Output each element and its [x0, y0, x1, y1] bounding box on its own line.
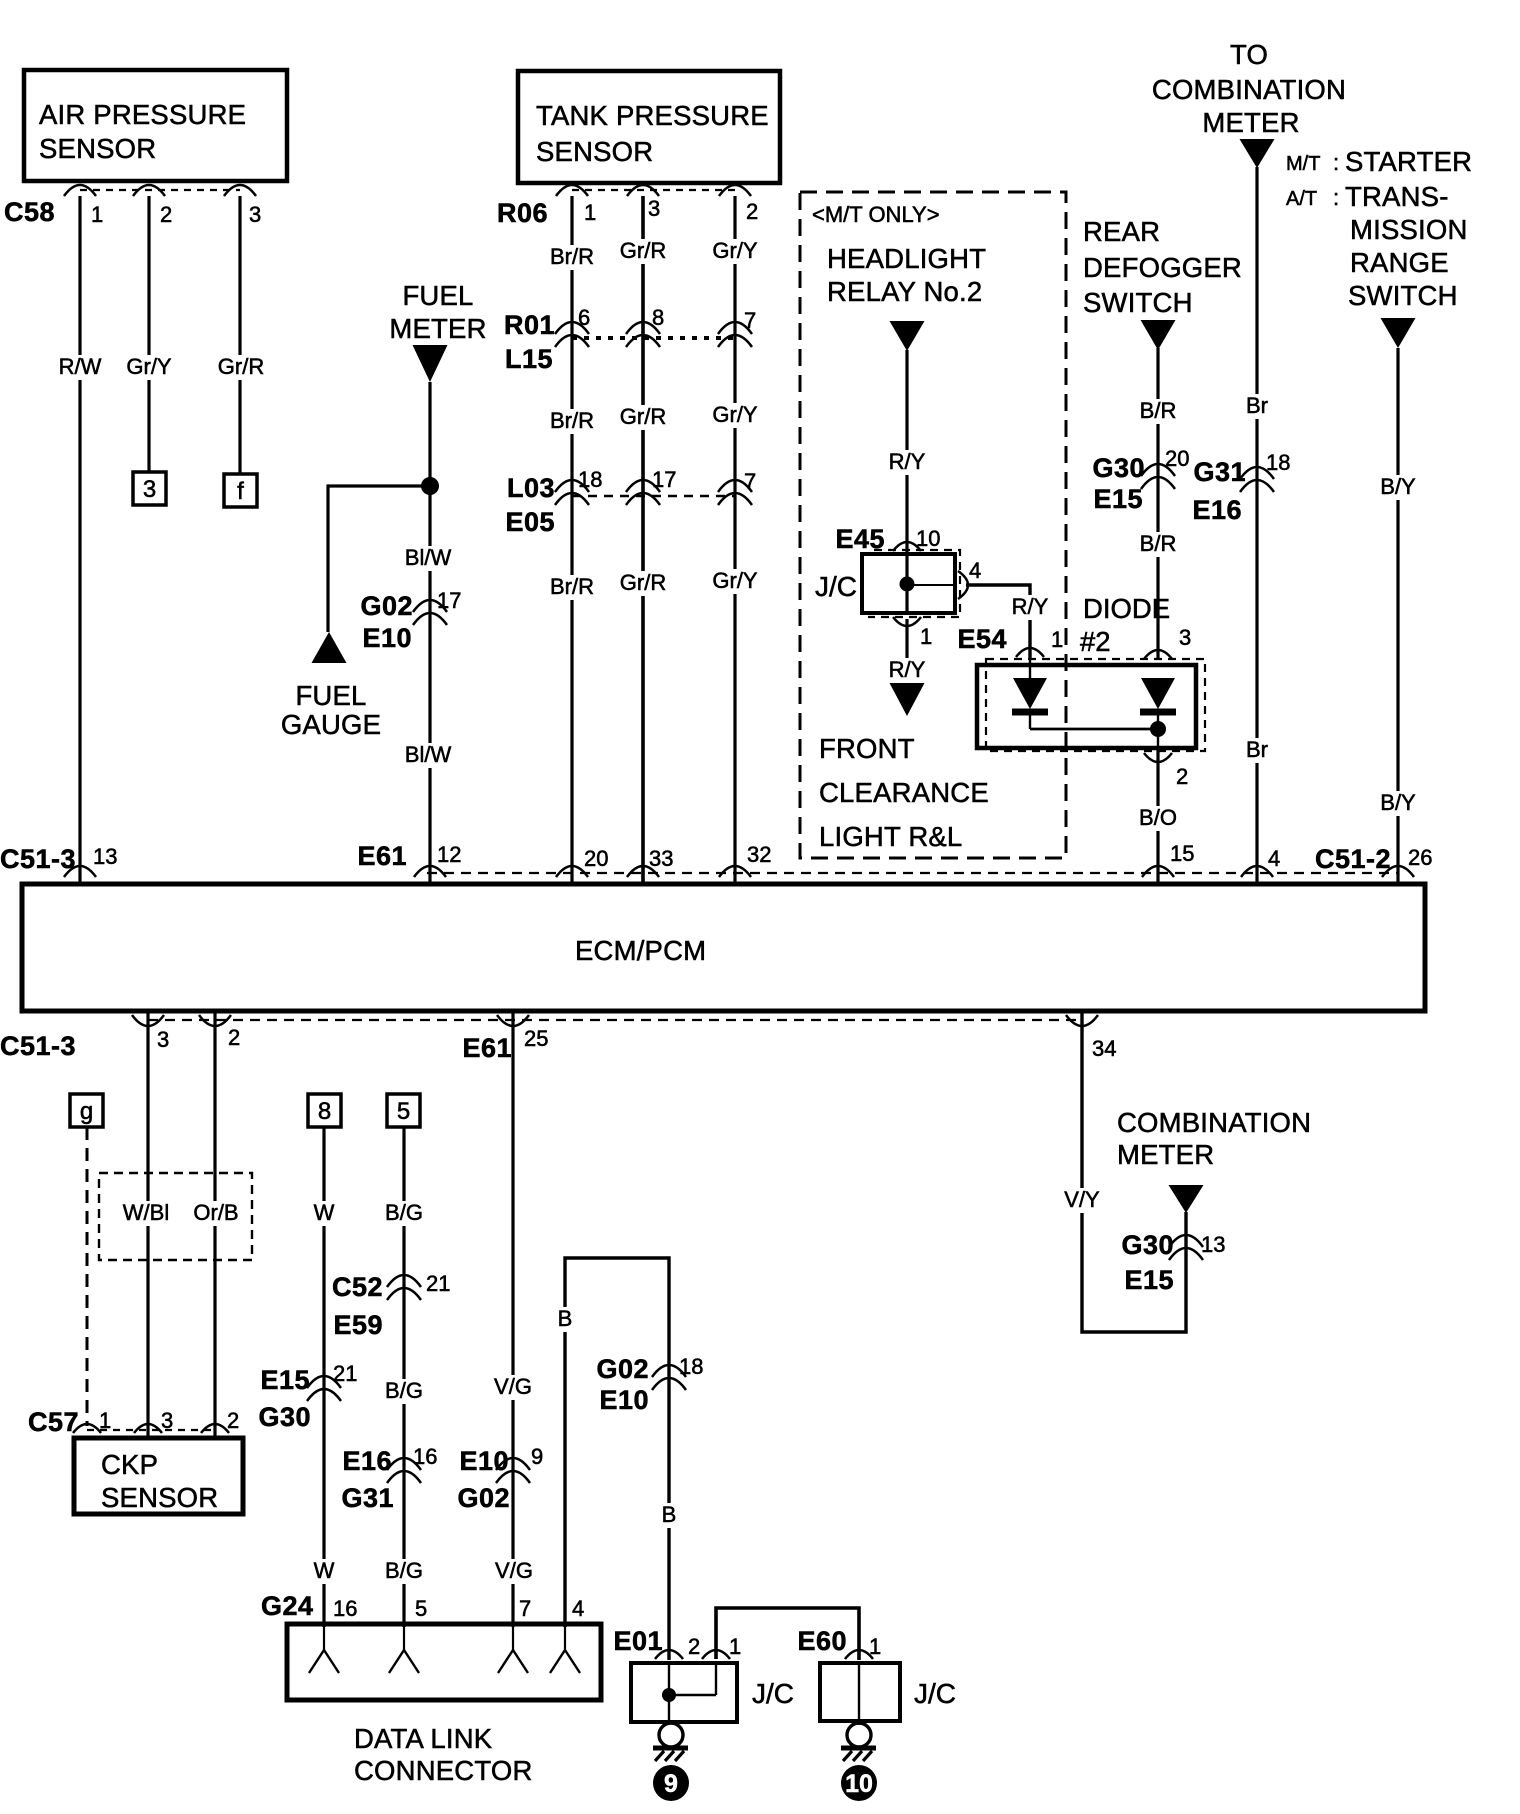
connector C52/E59 pin 21 [332, 1271, 451, 1340]
ground id disc 10 [841, 1765, 877, 1801]
svg-text:G31: G31 [1193, 457, 1246, 487]
svg-text:32: 32 [747, 842, 771, 867]
svg-text:E61: E61 [462, 1033, 512, 1063]
svg-text:FUEL: FUEL [295, 680, 366, 711]
connector G30/E15 pin 13 on V/Y wire [1121, 1230, 1225, 1295]
svg-text:Br: Br [1246, 393, 1268, 418]
svg-text:DEFOGGER: DEFOGGER [1083, 252, 1242, 283]
wire R/Y headlight relay to E45 [905, 350, 908, 556]
svg-text:15: 15 [1170, 841, 1194, 866]
wire label Gr/Y row3 [709, 568, 760, 594]
svg-text:7: 7 [744, 308, 756, 333]
svg-text:G02: G02 [360, 591, 413, 621]
C57 pin 1 [73, 1408, 111, 1433]
svg-text:J/C: J/C [815, 571, 857, 602]
ECM pin 26 [1382, 845, 1432, 877]
svg-text:21: 21 [426, 1271, 450, 1296]
R06 pin 1 [556, 185, 596, 225]
wire label V/G lower [492, 1558, 536, 1584]
DIODE #2 label [1080, 593, 1170, 657]
wire B/G box5 to DLC pin 5 [402, 1127, 405, 1627]
svg-text:2: 2 [228, 1025, 240, 1050]
wire label B/O [1136, 805, 1180, 831]
connector R01/L15 labels [504, 310, 555, 374]
svg-text:12: 12 [437, 842, 461, 867]
svg-text:6: 6 [578, 305, 590, 330]
svg-text:Br/R: Br/R [550, 408, 594, 433]
svg-text:ECM/PCM: ECM/PCM [575, 935, 706, 966]
svg-text::: : [1333, 150, 1339, 175]
DLC terminal fork pin 4 [550, 1626, 580, 1673]
svg-text:G30: G30 [1121, 1230, 1174, 1260]
svg-text:34: 34 [1092, 1036, 1116, 1061]
svg-text:25: 25 [524, 1026, 548, 1051]
C57 pin 2 [201, 1408, 239, 1433]
wire label Gr/R row1 [617, 238, 669, 264]
svg-text:2: 2 [1176, 764, 1188, 789]
wire label Br/R row3 [547, 574, 597, 600]
ECM pin 34 (bottom) [1066, 1015, 1116, 1061]
ECM pin 4 [1241, 846, 1280, 877]
L03/E05 dashed link line [572, 495, 735, 498]
M/T ONLY dashed enclosure [800, 192, 1066, 858]
diode box [977, 665, 1196, 748]
svg-text:C58: C58 [4, 197, 55, 227]
svg-text:<M/T ONLY>: <M/T ONLY> [812, 202, 940, 227]
svg-text:REAR: REAR [1083, 216, 1160, 247]
to combination meter arrow [1240, 139, 1275, 168]
J/C E01 box [631, 1663, 737, 1722]
L03/E05 pin 17 [626, 467, 676, 505]
G24 pin 5 [415, 1596, 427, 1621]
wire label V/G middle [491, 1374, 535, 1400]
connector C58 dashed line [80, 189, 240, 191]
FRONT CLEARANCE LIGHT R&L label [819, 733, 989, 852]
wire B/O diode to ECM pin 15 [1156, 750, 1159, 884]
svg-text:7: 7 [519, 1596, 531, 1621]
ground id disc 9 [653, 1765, 689, 1801]
wire label Gr/Y row2 [709, 402, 760, 428]
diode pin 2 arc [1144, 753, 1188, 789]
wire label Gr/Y row1 [709, 238, 760, 264]
wire label Or/B [190, 1200, 241, 1226]
junction dot at fuel meter wire [421, 477, 439, 495]
svg-text:TO: TO [1230, 39, 1268, 70]
E01 internal wires and junction dot [662, 1663, 716, 1722]
svg-text:DATA LINK: DATA LINK [354, 1723, 493, 1754]
svg-text:B/G: B/G [385, 1558, 423, 1583]
svg-text:E01: E01 [613, 1626, 663, 1656]
ECM pin 12 [414, 842, 461, 877]
svg-text:9: 9 [531, 1444, 543, 1469]
svg-text:V/G: V/G [494, 1374, 532, 1399]
J/C E60 box [820, 1663, 900, 1721]
E01 pin 1 [702, 1634, 741, 1659]
svg-text:4: 4 [572, 1596, 584, 1621]
svg-text:G02: G02 [457, 1483, 510, 1513]
wire Gr/Y to ECM pin 32 [733, 196, 736, 884]
ECM/PCM box [22, 884, 1425, 1011]
svg-text:V/G: V/G [495, 1558, 533, 1583]
svg-text:SENSOR: SENSOR [101, 1482, 218, 1513]
HEADLIGHT RELAY No.2 label [827, 243, 986, 307]
svg-text:GAUGE: GAUGE [281, 709, 381, 740]
DLC terminal fork pin 16 [309, 1626, 339, 1673]
R06 pin 3 [627, 185, 660, 221]
wire label W/Bl [120, 1200, 172, 1226]
wire C58-1 R/W to ECM pin 13 [78, 196, 81, 884]
TO COMBINATION METER label [1152, 39, 1346, 138]
E45 internal wire and junction dot [900, 554, 956, 613]
svg-text:26: 26 [1408, 845, 1432, 870]
ECM pin 20 [556, 846, 608, 877]
svg-text:Gr/Y: Gr/Y [712, 402, 758, 427]
G24 pin 7 [519, 1596, 531, 1621]
svg-text:16: 16 [333, 1596, 357, 1621]
diode box dashed outline [986, 659, 1205, 751]
svg-text:2: 2 [160, 202, 172, 227]
svg-text:G30: G30 [1092, 453, 1145, 483]
svg-text:C51-3: C51-3 [0, 844, 76, 874]
G24 pin 16 [333, 1596, 357, 1621]
svg-text:2: 2 [688, 1634, 700, 1659]
wire B/R rear defogger to diode pin 3 [1156, 348, 1159, 660]
DLC terminal fork pin 7 [498, 1626, 528, 1673]
wire C58-3 Gr/R [238, 196, 241, 474]
svg-text:COMBINATION: COMBINATION [1117, 1107, 1311, 1138]
DATA LINK CONNECTOR box [287, 1624, 601, 1700]
wire label Gr/R row3 [617, 570, 669, 596]
svg-text:E16: E16 [1192, 495, 1242, 525]
svg-text:L03: L03 [507, 473, 555, 503]
L03/E05 pin 18 [555, 467, 602, 505]
ECM pin 15 [1142, 841, 1194, 877]
svg-text:E10: E10 [362, 623, 412, 653]
svg-text:FUEL: FUEL [402, 280, 473, 311]
ground symbol below E01 [653, 1722, 688, 1761]
svg-text:B: B [662, 1502, 677, 1527]
wire label R/Y [886, 449, 929, 475]
wire Br to ECM pin 4 [1255, 167, 1258, 884]
svg-text:E60: E60 [797, 1626, 847, 1656]
R01/L15 pin 8 [626, 305, 664, 347]
svg-text:9: 9 [664, 1770, 678, 1798]
svg-text:Br/R: Br/R [550, 244, 594, 269]
svg-text:Br: Br [1246, 737, 1268, 762]
wire Gr/R to ECM pin 33 [641, 196, 645, 884]
ECM bottom edge dashed connector line [148, 1019, 1082, 1021]
wire Br/R to ECM pin 20 [570, 196, 573, 884]
svg-text:3: 3 [648, 196, 660, 221]
svg-text:13: 13 [1201, 1232, 1225, 1257]
REAR DEFOGGER SWITCH label [1083, 216, 1242, 318]
svg-text:1: 1 [584, 200, 596, 225]
connector E54 label and pin 1 [957, 624, 1063, 657]
svg-text:3: 3 [157, 1027, 169, 1052]
page-reference box g [70, 1094, 103, 1127]
svg-text:Gr/Y: Gr/Y [126, 354, 172, 379]
svg-text:3: 3 [143, 476, 156, 503]
svg-text:B/G: B/G [385, 1200, 423, 1225]
combination meter arrow (bottom) [1169, 1185, 1204, 1213]
connector L03/E05 labels [505, 473, 555, 537]
svg-text:M/T: M/T [1286, 153, 1320, 175]
svg-text:SWITCH: SWITCH [1083, 287, 1193, 318]
wire W box8 to DLC pin 16 [322, 1127, 325, 1627]
svg-text:L15: L15 [505, 344, 553, 374]
wire label B/G upper [382, 1200, 426, 1226]
svg-text:RELAY No.2: RELAY No.2 [827, 276, 982, 307]
connector G02/E10 pin 17 on Bl/W wire [360, 588, 461, 653]
R06 pin 2 [719, 185, 758, 224]
svg-text:C57: C57 [28, 1407, 79, 1437]
svg-text:CKP: CKP [101, 1449, 158, 1480]
fuel gauge arrow (to fuel gauge) [312, 632, 347, 663]
svg-text:SWITCH: SWITCH [1348, 280, 1458, 311]
svg-text:1: 1 [91, 202, 103, 227]
svg-text:R06: R06 [497, 198, 548, 228]
svg-text:MISSION: MISSION [1350, 214, 1468, 245]
ECM top edge dashed connector line [427, 872, 1398, 874]
headlight relay arrow [890, 321, 925, 351]
svg-text:SENSOR: SENSOR [39, 133, 156, 164]
svg-text:C51-3: C51-3 [0, 1031, 76, 1061]
svg-text:RANGE: RANGE [1350, 247, 1449, 278]
FUEL METER label [389, 280, 486, 344]
connector G30/E15 pin 20 [1092, 446, 1189, 514]
svg-text:4: 4 [969, 558, 981, 583]
wire B DLC pin4 up and over to E01 [565, 1258, 669, 1660]
ground symbol below E60 [841, 1721, 876, 1761]
diode D-left [1012, 657, 1048, 729]
M/T STARTER A/T TRANSMISSION RANGE SWITCH note [1286, 146, 1472, 311]
wire label B/R lower [1137, 531, 1180, 557]
svg-text:10: 10 [916, 526, 940, 551]
wire label W upper [311, 1200, 338, 1226]
wire label B/G lower [382, 1558, 426, 1584]
C57 dashed line [87, 1429, 215, 1431]
svg-text:TANK PRESSURE: TANK PRESSURE [536, 100, 769, 131]
svg-text:Gr/R: Gr/R [620, 238, 666, 263]
diode pin 3 arc [1144, 625, 1191, 659]
svg-text:R/W: R/W [59, 354, 102, 379]
svg-text:5: 5 [397, 1098, 410, 1125]
svg-text:R/Y: R/Y [1012, 594, 1049, 619]
E60 pin 1 [845, 1634, 881, 1659]
E60 internal wire [858, 1663, 860, 1721]
wire label B left [555, 1306, 576, 1332]
wire label R/W [56, 354, 105, 380]
svg-text:Gr/Y: Gr/Y [712, 568, 758, 593]
svg-text:4: 4 [1268, 846, 1280, 871]
svg-text:E61: E61 [357, 841, 407, 871]
C57 pin 3 [134, 1408, 173, 1433]
wire ECM pin3 to CKP (W/Bl) [146, 1011, 149, 1438]
svg-text:G31: G31 [341, 1483, 394, 1513]
svg-text:20: 20 [584, 846, 608, 871]
ECM pin 32 [719, 842, 771, 877]
svg-text:1: 1 [869, 1634, 881, 1659]
svg-text:METER: METER [1202, 107, 1299, 138]
connector E16/G31 pin 16 [341, 1444, 437, 1513]
svg-text:B/R: B/R [1140, 531, 1177, 556]
svg-text:2: 2 [227, 1408, 239, 1433]
dashed wire g to C57 pin 1 [86, 1127, 89, 1426]
svg-text:B/G: B/G [385, 1378, 423, 1403]
svg-text:E15: E15 [260, 1365, 310, 1395]
svg-text:Bl/W: Bl/W [405, 545, 452, 570]
component box TANK PRESSURE SENSOR [518, 71, 780, 183]
DLC terminal fork pin 5 [389, 1626, 419, 1673]
ECM pin 33 [627, 846, 673, 877]
page-reference box 8 [308, 1094, 341, 1127]
COMBINATION METER label (bottom) [1117, 1107, 1311, 1170]
svg-text:E10: E10 [599, 1385, 649, 1415]
E01 pin 2 [655, 1634, 700, 1659]
ECM pin 2 (bottom) [199, 1015, 240, 1050]
svg-text:B/O: B/O [1139, 805, 1177, 830]
wire Bl/W fuel meter to ECM pin 12 [428, 382, 431, 884]
wire label B/Y lower [1377, 790, 1418, 816]
svg-text:B/R: B/R [1140, 398, 1177, 423]
svg-text:3: 3 [1179, 625, 1191, 650]
svg-text:Or/B: Or/B [193, 1200, 238, 1225]
svg-text:g: g [80, 1098, 93, 1125]
svg-text:33: 33 [649, 846, 673, 871]
svg-text:21: 21 [333, 1361, 357, 1386]
wire label R/Y (diode feed) [1009, 594, 1052, 620]
svg-text:3: 3 [249, 202, 261, 227]
svg-text:CONNECTOR: CONNECTOR [354, 1755, 533, 1786]
wire label Bl/W upper [402, 545, 454, 571]
wire label V/Y [1061, 1187, 1102, 1213]
svg-text:A/T: A/T [1286, 188, 1317, 210]
svg-text:J/C: J/C [752, 1678, 794, 1709]
wire V/Y ECM pin34 to combination meter [1082, 1011, 1186, 1332]
wire label Bl/W lower [402, 742, 454, 768]
svg-text:FRONT: FRONT [819, 733, 915, 764]
wire label B/R upper [1137, 398, 1180, 424]
svg-text:HEADLIGHT: HEADLIGHT [827, 243, 986, 274]
svg-text:COMBINATION: COMBINATION [1152, 74, 1346, 105]
svg-text:8: 8 [652, 305, 664, 330]
svg-text:E59: E59 [333, 1310, 383, 1340]
svg-text:Br/R: Br/R [550, 574, 594, 599]
svg-text:STARTER: STARTER [1345, 146, 1472, 177]
wire label Gr/R [215, 354, 267, 380]
svg-text:18: 18 [1266, 450, 1290, 475]
svg-text:#2: #2 [1080, 626, 1111, 657]
svg-text:CLEARANCE: CLEARANCE [819, 777, 989, 808]
svg-text:SENSOR: SENSOR [536, 136, 653, 167]
wire label Br lower [1243, 737, 1271, 763]
connector G31/E16 pin 18 [1192, 450, 1290, 525]
svg-text:G24: G24 [261, 1591, 314, 1621]
E45 pin 4 arc [958, 558, 981, 599]
wire R/Y E45 to front clearance light [905, 619, 908, 684]
J/C E45 dashed outline [868, 550, 960, 617]
svg-text:1: 1 [99, 1408, 111, 1433]
svg-text:18: 18 [679, 1354, 703, 1379]
rear defogger arrow [1141, 320, 1176, 350]
J/C E45 box [862, 554, 955, 613]
svg-text:5: 5 [415, 1596, 427, 1621]
svg-text:E15: E15 [1124, 1265, 1174, 1295]
wire ECM pin2 to CKP (Or/B) [213, 1011, 216, 1438]
svg-text:J/C: J/C [914, 1678, 956, 1709]
svg-text:20: 20 [1165, 446, 1189, 471]
svg-text:Gr/Y: Gr/Y [712, 238, 758, 263]
R01/L15 dotted link line [572, 336, 735, 340]
L03/E05 pin 7 [718, 469, 756, 505]
C58 pin 3 [224, 185, 261, 227]
svg-text:W/Bl: W/Bl [123, 1200, 169, 1225]
svg-text:V/Y: V/Y [1064, 1187, 1100, 1212]
svg-text:Gr/R: Gr/R [218, 354, 264, 379]
G24 pin 4 [572, 1596, 584, 1621]
R01/L15 pin 6 [555, 305, 590, 347]
svg-text:W: W [314, 1558, 335, 1583]
connector E15/G30 pin 21 [258, 1361, 357, 1432]
svg-text:E05: E05 [505, 507, 555, 537]
wire C58-2 Gr/Y [147, 196, 150, 472]
svg-text:C51-2: C51-2 [1315, 844, 1391, 874]
svg-text:C52: C52 [332, 1272, 383, 1302]
svg-text:G30: G30 [258, 1402, 311, 1432]
page-reference box 3 [133, 472, 166, 505]
svg-text:R/Y: R/Y [889, 449, 926, 474]
component box AIR PRESSURE SENSOR [24, 70, 287, 181]
svg-text:8: 8 [318, 1098, 331, 1125]
wire label R/Y (clearance) [886, 657, 929, 683]
svg-text:1: 1 [729, 1634, 741, 1659]
svg-text:Gr/R: Gr/R [620, 404, 666, 429]
C58 pin 1 [64, 185, 103, 227]
svg-text:G02: G02 [596, 1354, 649, 1384]
svg-text:AIR PRESSURE: AIR PRESSURE [39, 99, 246, 130]
svg-text::: : [1333, 185, 1339, 210]
svg-text:17: 17 [652, 467, 676, 492]
svg-text:LIGHT R&L: LIGHT R&L [819, 821, 962, 852]
wire label Br/R row2 [547, 408, 597, 434]
svg-text:METER: METER [1117, 1139, 1214, 1170]
svg-text:Gr/R: Gr/R [620, 570, 666, 595]
wire label B/Y upper [1377, 474, 1418, 500]
svg-text:TRANS-: TRANS- [1345, 181, 1449, 212]
svg-text:B: B [558, 1306, 573, 1331]
wire label B right [659, 1502, 680, 1528]
svg-text:E10: E10 [459, 1446, 509, 1476]
wire label Br/R row1 [547, 244, 597, 270]
svg-text:Bl/W: Bl/W [405, 742, 452, 767]
wire B/Y to ECM pin 26 [1396, 348, 1399, 884]
wire label B/G middle [382, 1378, 426, 1404]
wire V/G ECM pin25 to DLC pin 7 [511, 1011, 514, 1627]
wire label Gr/R row2 [617, 404, 669, 430]
ECM pin 3 (bottom) [132, 1015, 169, 1052]
connector E10/G02 pin 9 [457, 1444, 543, 1513]
wire label W lower [311, 1558, 338, 1584]
connector R06 dashed line [572, 189, 735, 191]
junction connector E45 label and pin 10 [835, 524, 940, 554]
transmission range switch arrow [1381, 318, 1416, 348]
wire R/Y E45 pin4 to diode [966, 585, 1030, 660]
svg-text:10: 10 [845, 1770, 873, 1798]
ECM pin 13 [64, 844, 117, 877]
svg-text:13: 13 [93, 844, 117, 869]
svg-text:17: 17 [437, 588, 461, 613]
svg-text:1: 1 [1051, 627, 1063, 652]
